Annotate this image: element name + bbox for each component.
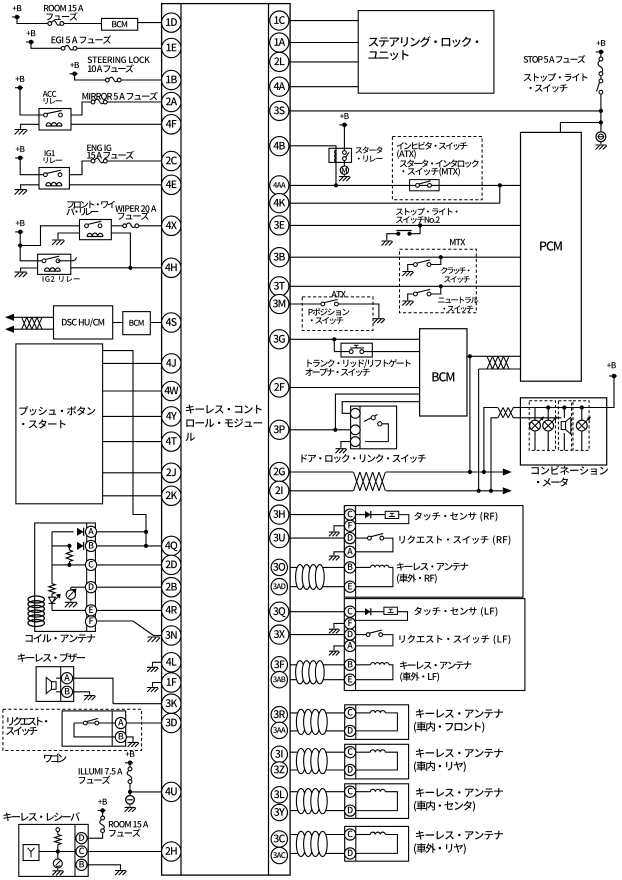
power +B (combination meter) [609, 375, 617, 377]
keyless control module U1 body [162, 4, 291, 876]
wire IG2 contact stub [58, 260, 73, 262]
junction R1 bottom [67, 563, 71, 567]
wire RF A ground [334, 552, 345, 556]
wire +B steering-lock fuse to pin 1B [75, 74, 106, 80]
wire pin 4K riser [290, 202, 500, 204]
fuse EGI 5 A [61, 46, 65, 50]
door lock link switch box [351, 406, 397, 449]
ground (ACC relay) [15, 130, 28, 135]
pin 1B [162, 70, 181, 89]
indicator lamp 3 [581, 408, 583, 421]
fuse WIPER 20 A [123, 224, 127, 228]
wire push-button to pin 2K [103, 495, 172, 497]
pin 1A [270, 33, 289, 52]
power +B (ROOM fuse) [12, 16, 20, 18]
diode D2 (coil antenna B) [77, 542, 84, 550]
connector pins antenna センタ [345, 786, 356, 797]
module ATX dashed box [302, 297, 373, 331]
wire push-button to pin 4Y [103, 415, 172, 417]
pin 1E [162, 38, 181, 57]
power +B (IG1 relay) [15, 157, 23, 159]
wire pin 3I to antenna リヤ1 C [290, 751, 345, 753]
wire request switch A to pin 3D [126, 722, 171, 724]
pin 2G [270, 462, 289, 481]
dashed box meter lamp 2 [573, 401, 589, 451]
inductor L1 coil antenna winding [28, 596, 44, 603]
wire pin 3AA to antenna フロント D [290, 730, 345, 732]
ground (buzzer) [84, 696, 95, 701]
wire pin 1A to steering lock unit [290, 42, 358, 44]
request switch LF [356, 634, 367, 636]
pin 3H [270, 505, 289, 524]
pin 2D [162, 555, 181, 574]
ground (LF F) [329, 629, 340, 633]
pin 3P [270, 420, 289, 439]
ground (RF A) [329, 556, 340, 560]
indicator lamp 2 [547, 408, 549, 421]
module BCM (room fuse path) [102, 18, 138, 30]
pin 2J [162, 463, 181, 482]
wire pin 3R to antenna フロント C [290, 712, 345, 714]
wire pin C row to pin 2D [96, 564, 171, 566]
wire +B to BCM to pin 1D [17, 17, 48, 24]
wire pin 3E to PCM [290, 224, 520, 226]
ground (starter motor) [339, 177, 350, 182]
label keyless antenna リヤ2 [416, 831, 503, 840]
wire wiper relay to WIPER fuse to pin 4X [111, 225, 122, 227]
wire pin 3AD to RF E [290, 586, 345, 588]
wire BCM to pin 4S [150, 322, 171, 324]
wire +B branch to front wiper relay [20, 226, 79, 246]
pin 3C [271, 831, 287, 847]
module inhibitor switch dashed box [392, 137, 482, 200]
junction 3S [599, 109, 603, 113]
connector pins antenna リヤ1 [345, 747, 356, 758]
wire pin 3L to antenna センタ C [290, 791, 345, 793]
crystal symbol (receiver) [53, 859, 62, 868]
module keyless receiver box [19, 824, 88, 876]
pin 2C [162, 151, 181, 170]
ground (neutral switch) [402, 301, 413, 306]
pin 3R [271, 707, 287, 723]
label keyless antenna リヤ1 [416, 748, 503, 757]
pin 4K [270, 194, 289, 213]
antenna coil リヤ2 [356, 834, 370, 836]
pin 4T [162, 432, 181, 451]
power +B (STOP fuse) [600, 52, 602, 57]
wire pin F row to ground near 3N [95, 621, 153, 636]
touch sensor element RF [385, 511, 399, 518]
pin 3K [162, 694, 181, 713]
coax loops 3O/3AD [296, 565, 305, 590]
pin 4H [162, 258, 181, 277]
wire buzzer A to pin 3K [72, 678, 113, 704]
pin 2I [270, 481, 289, 500]
pin 4Q [162, 536, 181, 555]
wire pin 3U to RF D [290, 537, 345, 539]
wire pin 3N to ground [154, 635, 162, 637]
pin 3N [162, 626, 181, 645]
antenna coil フロント [356, 712, 370, 714]
wire fuse to pin 4U [129, 784, 131, 792]
pin 4R [162, 601, 181, 620]
pin 3F [271, 657, 287, 673]
pin 4L [162, 653, 181, 672]
junction 3P [333, 428, 337, 432]
wire pin 3T to PCM [290, 285, 520, 287]
ground (clutch switch) [402, 272, 413, 277]
relay ACC coil ground wire [21, 124, 39, 128]
wire LF F ground [334, 623, 345, 628]
diode D1 (coil antenna A) [77, 528, 84, 536]
request switch inner box [62, 711, 126, 746]
module coil antenna box [35, 523, 96, 631]
wire pin 3M to P position switch [290, 303, 321, 305]
pin 4B [270, 137, 289, 156]
request switch RF [356, 537, 368, 539]
pin 4Y [162, 407, 181, 426]
coax loops 3L/3Y [296, 789, 305, 814]
speaker (buzzer) [52, 682, 57, 690]
pin 3U [270, 529, 289, 548]
stop lamp [596, 132, 606, 142]
resistor R1 (coil antenna) [66, 550, 72, 562]
coax loops 3F/3AB [296, 661, 305, 684]
pin 4AA [270, 176, 289, 195]
wire IG2 coil to ground [21, 268, 38, 271]
coax loops 3C/3AC [296, 831, 305, 856]
meter buzzer speaker [563, 408, 565, 419]
pin 4A [270, 77, 289, 96]
switch (request wagon) [74, 722, 116, 724]
junction diode A feed [144, 530, 148, 534]
inhibitor switch contacts [410, 180, 440, 191]
wire riser 2I to pair [478, 369, 480, 491]
connector pins antenna リヤ2 [345, 829, 356, 840]
wire pin A row to junction [96, 531, 146, 533]
relay IG2 [38, 254, 71, 274]
wire LF A ground [334, 646, 345, 651]
neutral switch [439, 284, 443, 288]
wire fuse to receiver pin D [87, 833, 103, 839]
wire pin 3Z to antenna リヤ1 D [290, 769, 345, 771]
pin 4F [162, 115, 181, 134]
ground (request switch) [128, 742, 139, 747]
power +B (starter relay) [343, 125, 345, 151]
wire stop light switch down to lamp [600, 94, 602, 132]
wire pin 4L to ground [153, 662, 162, 666]
wire internal rows (coil antenna) [52, 531, 74, 533]
pin 1F [162, 673, 181, 692]
power +B (wiper/IG2) [15, 231, 23, 233]
pin 3E [270, 216, 289, 235]
junction diode B feed [144, 544, 148, 548]
junction trunk switch [332, 337, 336, 341]
wire +B to IG1 relay contact [20, 158, 45, 175]
twisted pair BCM to PCM [467, 355, 521, 357]
wire pin 2L to steering lock unit [290, 61, 358, 63]
relay ACC [39, 109, 71, 131]
pin 4X [162, 216, 181, 235]
module touch sensor / request / antenna (RF) box [344, 506, 523, 598]
fuse ENG IG 15 A [91, 159, 95, 163]
power +B (ILLUMI fuse) [129, 763, 131, 767]
module BCM (DSC path) [123, 312, 151, 335]
module keyless buzzer box [36, 667, 74, 702]
diode (touch sensor RF) [356, 514, 365, 516]
junction +B branch [18, 243, 22, 247]
pin 2B [162, 578, 181, 597]
pin 4U [162, 782, 181, 801]
wire pin 1F to ground [153, 683, 162, 687]
wire door lock bottom pin to ground [341, 442, 355, 448]
wire pin 4A to steering lock unit [290, 86, 358, 88]
resistor R2 (coil antenna) [49, 584, 55, 594]
wire 2I riser to combination meter [491, 418, 498, 491]
connector pins request switch [115, 717, 126, 728]
module DSC HU/CM [54, 306, 113, 339]
junction 4U / lamp [128, 790, 132, 794]
connector pins RF [344, 509, 355, 520]
wire +B to ACC relay contact [20, 88, 45, 115]
wire wiper relay coil to ground [58, 233, 80, 239]
wire starter relay coil to 4AA wire [335, 162, 337, 185]
fuse STOP 5 A [599, 57, 603, 61]
clutch switch [439, 255, 443, 259]
wire riser 2G to BCM pair [469, 356, 471, 472]
antenna symbol (receiver) [23, 845, 39, 861]
wire pin 4B to starter relay coil [290, 146, 336, 150]
connector pins door lock switch [350, 408, 360, 418]
pin 3D [162, 713, 181, 732]
wire pin 3F to LF B [290, 664, 345, 666]
twisted pair 2G/2I [353, 467, 386, 496]
resistor R3 (receiver) [57, 832, 59, 835]
wire meter bus to +B [607, 376, 614, 408]
module combination meter [520, 398, 606, 465]
pin 3B [270, 248, 289, 267]
junction 4K riser on 4AA [498, 183, 502, 187]
junction 2G risers [468, 470, 472, 474]
ground (stop light switch No.2) [381, 241, 392, 246]
indicator lamp 1 [534, 408, 536, 421]
junction 2I risers [477, 489, 481, 493]
coax loops 3I/3Z [296, 749, 305, 774]
pin 1C [270, 11, 289, 30]
wire pin 3Y to antenna センタ D [290, 810, 345, 812]
pin 2K [162, 486, 181, 505]
pin 4S [162, 313, 181, 332]
antenna coil センタ [356, 791, 370, 793]
antenna coil RF [356, 566, 371, 568]
wire meter internal bus [520, 407, 606, 409]
connector pins receiver [76, 833, 87, 844]
wire IG1 relay to ENG IG fuse to pin 2C [69, 161, 91, 175]
ground (pin 4L) [147, 667, 158, 672]
wire ACC relay to MIRROR fuse to pin 2A [71, 102, 91, 115]
wire trunk switch branch [334, 339, 349, 351]
twisted pair to DSC HU/CM with arrows [14, 316, 54, 318]
ground (RF F) [329, 532, 340, 536]
P position switch [321, 302, 325, 306]
wire ACC relay coil to pin 4F [71, 123, 171, 125]
terminal circle (receiver) [56, 828, 60, 832]
wire pin 3C to antenna リヤ2 C [290, 834, 345, 836]
wire 3P riser to BCM [335, 394, 419, 430]
motor M (starter) [343, 161, 345, 166]
illumination lamp [129, 792, 131, 796]
pin 2A [162, 92, 181, 111]
wire wiper relay coil to 4H wire [111, 233, 130, 268]
module keyless antenna リヤ2 box [345, 826, 409, 861]
fuse ILLUMI 7.5 A [128, 767, 132, 771]
LED D3 (coil antenna) [49, 597, 56, 603]
module touch sensor / request / antenna (LF) box [344, 599, 525, 691]
fuse MIRROR 5 A [91, 100, 95, 104]
relay IG1 coil ground wire [21, 185, 39, 189]
junction R1 top [67, 544, 71, 548]
relay starter [329, 148, 352, 162]
pin 3Q [270, 602, 289, 621]
wire pin 3O to RF B [290, 566, 345, 568]
wire DSC to BCM [113, 322, 123, 324]
junction wiper coil / 4H [128, 266, 132, 270]
power +B (ACC relay) [15, 87, 23, 89]
pin 2L [270, 52, 289, 71]
wire receiver pin B to ground [87, 865, 121, 870]
power +B (ROOM fuse 2) [102, 811, 104, 817]
ground (pin 1F) [147, 688, 158, 693]
switch blade (door lock) [364, 415, 378, 422]
ground (receiver internal) [52, 871, 63, 876]
wire push-button to pin 4W [103, 390, 172, 392]
ground (door lock switch) [336, 449, 347, 454]
dashed box meter buzzer [558, 401, 571, 451]
pin 4W [162, 381, 181, 400]
wire RF F ground [334, 526, 345, 531]
module BCM main [420, 329, 467, 416]
junction receiver [56, 849, 60, 853]
pin 3Y [271, 804, 287, 820]
touch sensor element LF [384, 607, 398, 614]
module PCM [521, 132, 582, 381]
pin 3AB [271, 672, 287, 688]
wire pin 3S to stop light switch [290, 110, 601, 112]
connector pins buzzer [61, 673, 72, 684]
ground (receiver pin B) [115, 871, 126, 876]
pin 3I [271, 746, 287, 762]
pin 3X [270, 625, 289, 644]
antenna coil リヤ1 [356, 751, 370, 753]
pin 3G [270, 330, 289, 349]
power +B (EGI fuse) [26, 41, 34, 43]
wire pin 3H to RF C [290, 514, 345, 516]
module request switch (wagon) dashed box [3, 709, 142, 750]
connector pins coil antenna [85, 526, 96, 537]
pin 2H [162, 842, 181, 861]
ground (IG1 relay) [15, 190, 28, 195]
wire LED to pin E row [52, 609, 96, 611]
trunk lid opener switch [341, 343, 372, 357]
ground (stop lamp) [596, 145, 607, 150]
wire trunk switch to BCM [364, 351, 420, 353]
wire +B EGI fuse to pin 1E [31, 42, 61, 48]
stop light switch [600, 76, 602, 80]
label keyless antenna フロント [416, 709, 503, 718]
twisted pair to combination meter [498, 408, 513, 418]
pin 3AC [271, 847, 287, 863]
module keyless antenna リヤ1 box [345, 744, 409, 779]
wire +B down to IG2 relay contact [20, 246, 44, 261]
wire pin 2G with twisted pair and arrow [290, 471, 503, 473]
module steering lock unit [358, 11, 494, 94]
ground (wiper relay) [52, 240, 65, 245]
fuse ROOM 15 A (receiver) [101, 816, 105, 820]
wire IG1 relay coil to pin 4E [69, 184, 171, 186]
relay IG1 [39, 168, 69, 190]
pin 3T [270, 277, 289, 296]
wire pin 3X to LF D [290, 634, 345, 636]
diode (touch sensor LF) [356, 611, 365, 613]
wire pin 3G to BCM [290, 338, 420, 340]
label keyless control module [186, 405, 262, 414]
wire meter speaker feed [520, 417, 561, 419]
pin 4E [162, 175, 181, 194]
relay front wiper [80, 220, 112, 240]
wire pin E row to pin 4R [96, 609, 171, 611]
photo sensor Q1 (coil antenna) [71, 586, 96, 588]
junction stop lamp / PCM branch [599, 120, 603, 124]
coax loops 3R/3AA [296, 709, 305, 734]
connector pins antenna フロント [345, 707, 356, 718]
pin 3O [271, 559, 287, 575]
wire pin 4AA through inhibitor switch to PCM [290, 184, 520, 186]
wire pin B row to pin 4Q [96, 545, 171, 547]
module push button start [16, 344, 103, 504]
wire pin 3B to PCM [290, 256, 520, 258]
ground (P position switch) [374, 319, 385, 324]
ground (photo sensor) [65, 602, 78, 607]
module keyless antenna センタ box [345, 784, 409, 819]
wire push-button to pin 4J [103, 362, 172, 364]
pin 4J [162, 354, 181, 373]
wire pin 3AC to antenna リヤ2 D [290, 852, 345, 854]
wire pin 3AB to LF E [290, 679, 345, 681]
stop light switch No.2 [418, 223, 422, 227]
ground (coil antenna / 3N) [148, 637, 161, 642]
module keyless antenna フロント box [345, 705, 409, 740]
wire pin 2I with twisted pair and arrow [290, 490, 503, 492]
wire internal vertical bus (coil antenna) [51, 532, 53, 584]
ground (illumination lamp) [125, 807, 136, 812]
wire push-button to pin 4T [103, 441, 172, 443]
power +B (STEERING LOCK fuse) [70, 73, 78, 75]
wire push-button to pin 2J [103, 472, 172, 474]
pin 3Z [271, 762, 287, 778]
junction starter coil on 4AA [334, 183, 338, 187]
wire 2G riser to combination meter [484, 408, 498, 473]
wire IG2 coil to pin 4H [71, 267, 172, 269]
ground (IG2 relay) [15, 272, 28, 277]
pin 3AD [271, 579, 287, 595]
wire push-button top to coil-antenna diodes [103, 351, 146, 546]
antenna coil LF [356, 664, 371, 666]
wire request switch B to ground [126, 737, 133, 742]
pin 3S [270, 101, 289, 120]
pin 3AA [271, 722, 287, 738]
wire buzzer B to ground [72, 692, 89, 695]
label keyless antenna センタ [416, 788, 503, 797]
